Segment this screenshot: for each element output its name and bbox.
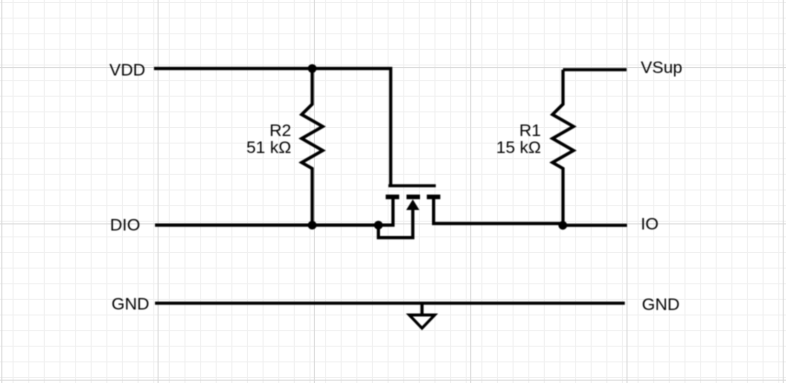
junction dot DIO/R2 — [308, 221, 317, 230]
wire DIO (to source stub) — [155, 199, 393, 225]
transistor M1 (MOSFET, IC style) — [386, 186, 441, 210]
bulk arrow — [406, 199, 419, 210]
svg-text:DIO: DIO — [110, 216, 140, 235]
wire IO — [563, 224, 627, 227]
svg-text:15 kΩ: 15 kΩ — [496, 138, 541, 157]
ground — [409, 303, 434, 328]
gate plate — [388, 184, 435, 187]
junction dot VDD/R2 — [308, 64, 317, 73]
bulk contact bar — [407, 195, 421, 200]
junction dot DIO/body — [374, 221, 383, 230]
source contact bar — [386, 195, 400, 200]
wire drain to IO junction — [434, 199, 563, 224]
wire VDD (top rail to gate corner) — [154, 69, 391, 187]
svg-text:51 kΩ: 51 kΩ — [246, 138, 291, 157]
junction dot IO/R1 — [558, 221, 567, 230]
wire VSup — [563, 68, 627, 71]
svg-text:IO: IO — [641, 214, 659, 233]
resistor R1 — [553, 70, 574, 226]
drain contact bar — [427, 195, 441, 200]
svg-text:GND: GND — [112, 295, 150, 314]
svg-text:VDD: VDD — [109, 61, 145, 80]
wire GND — [155, 302, 625, 305]
svg-text:GND: GND — [642, 295, 680, 314]
wire body loop (bulk to DIO junction) — [378, 208, 412, 238]
svg-text:VSup: VSup — [641, 58, 683, 77]
resistor R2 — [302, 69, 323, 226]
